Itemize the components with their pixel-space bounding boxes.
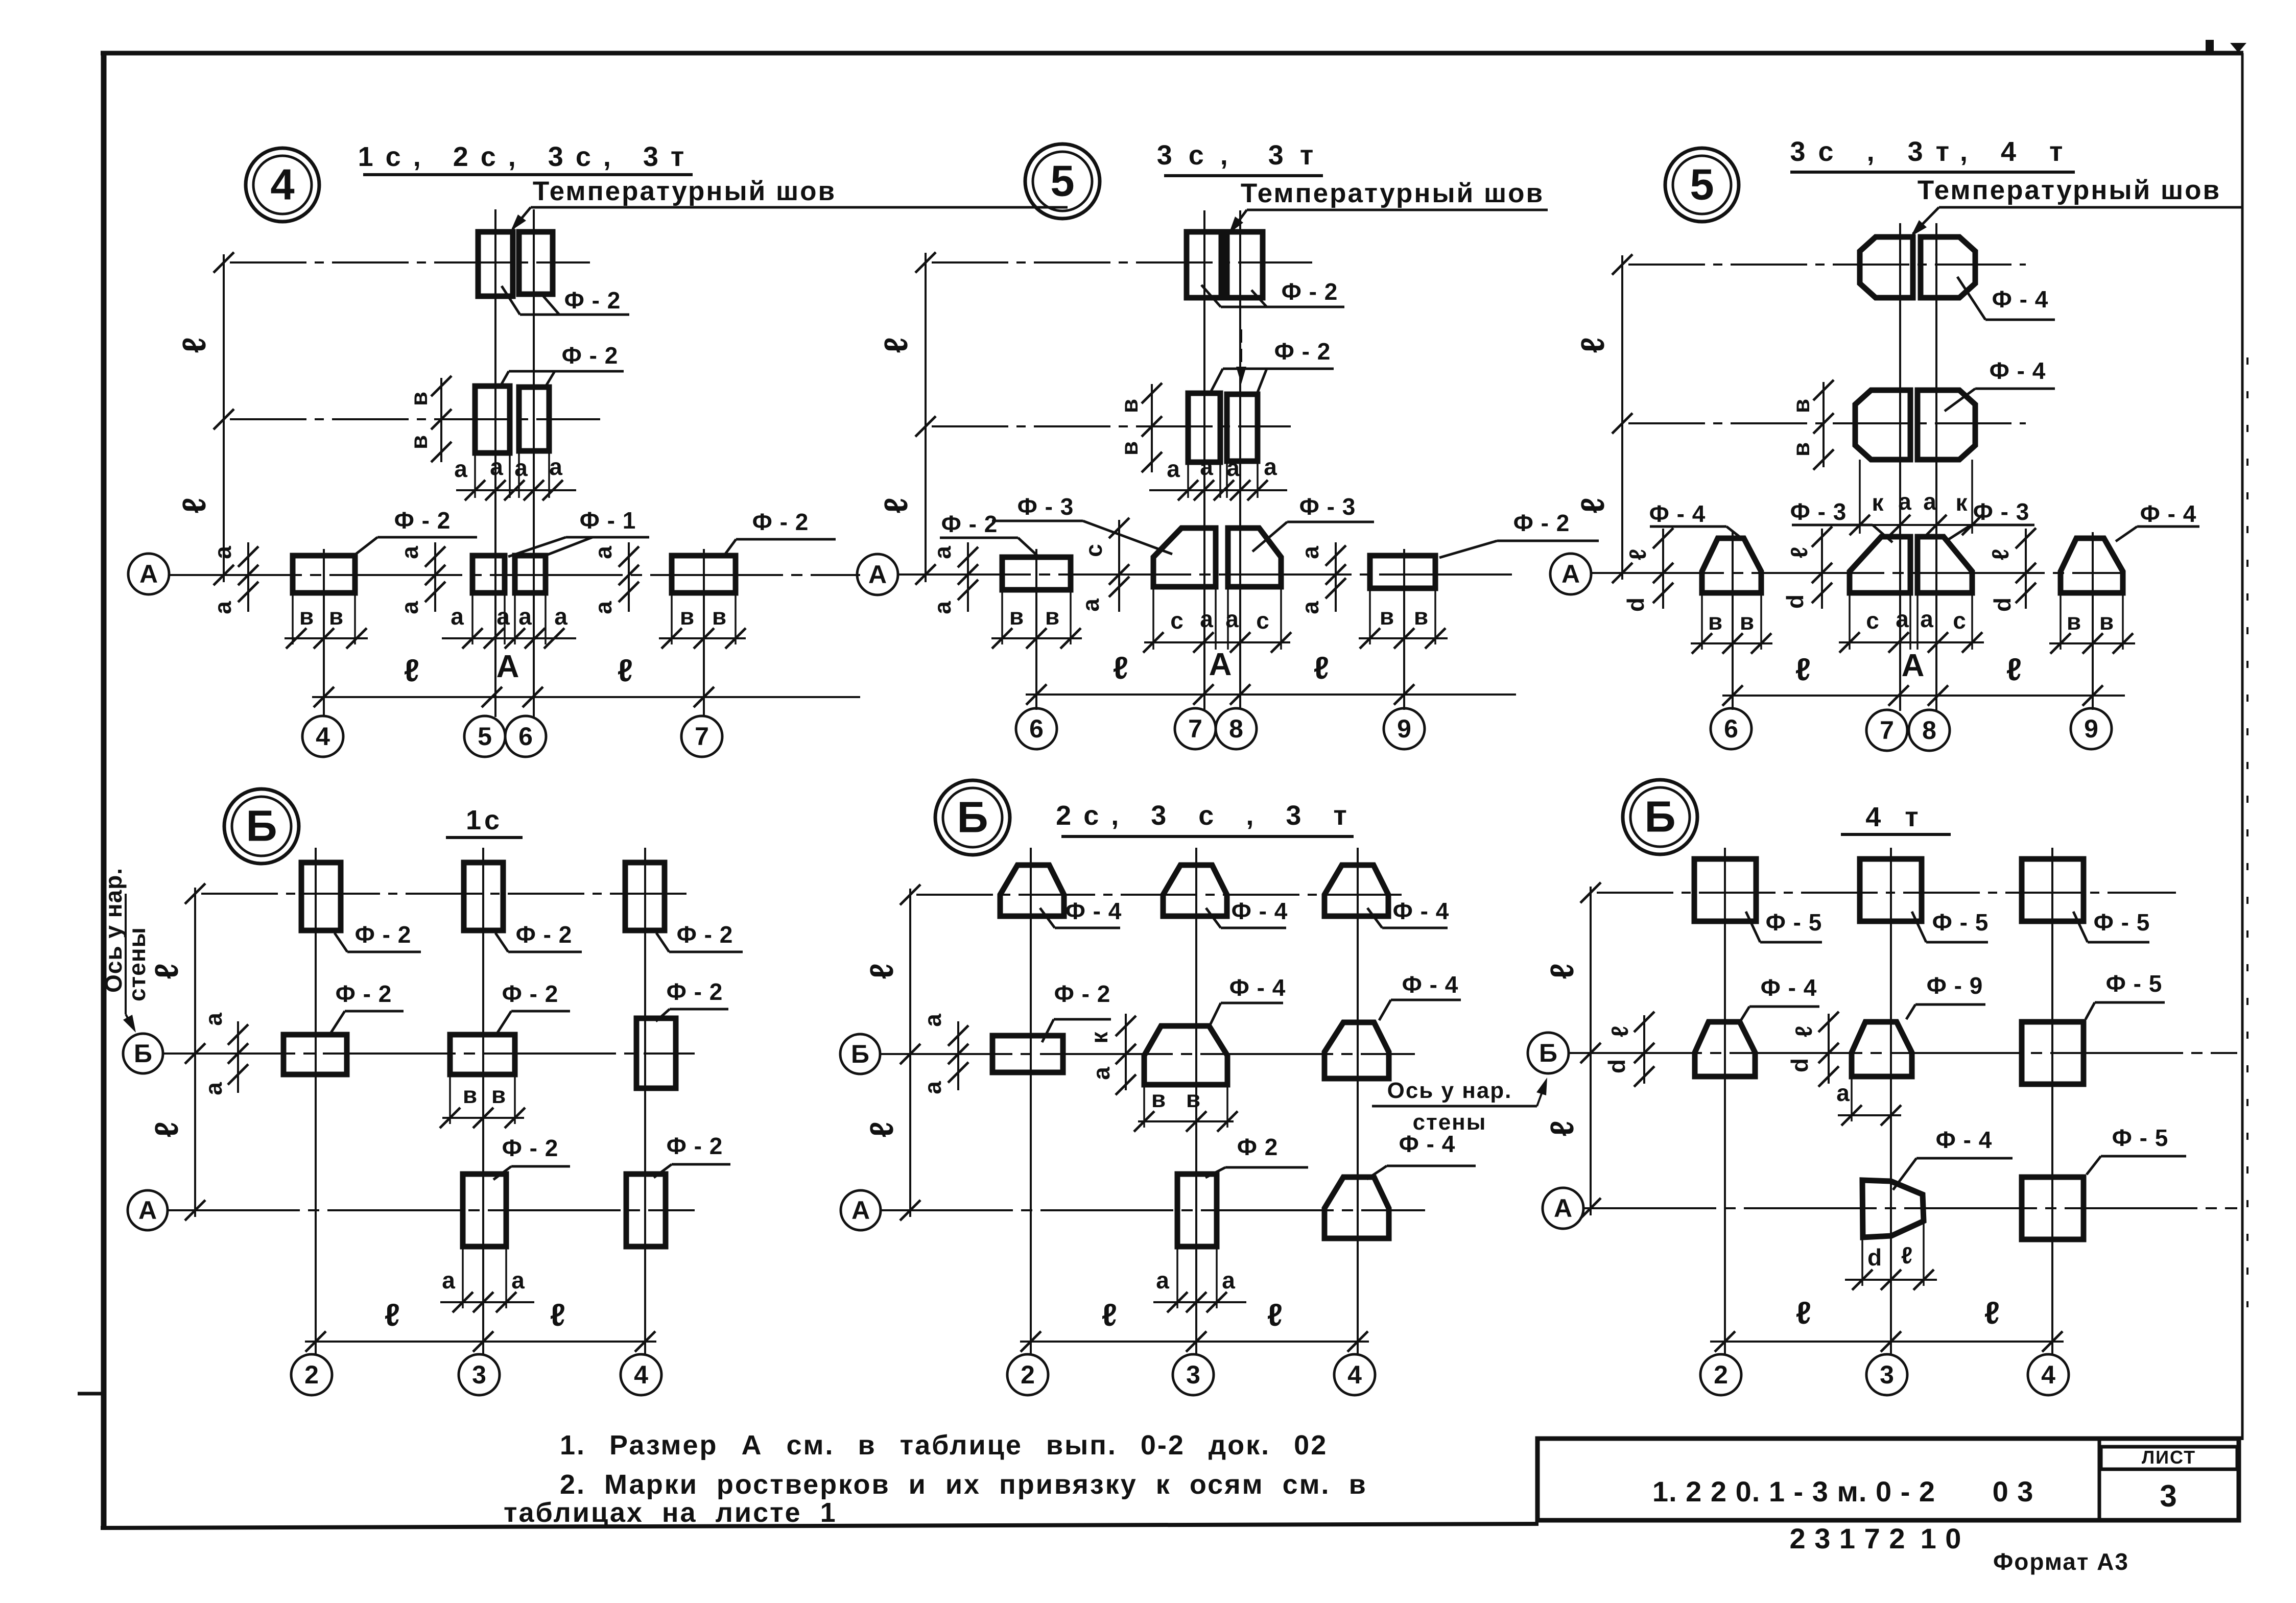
panel4 pile cap F-2 rowA col4 [626, 1174, 666, 1247]
svg-text:ℓ: ℓ [550, 1298, 565, 1333]
panel6 pile cap F-5 rowB col4 [2022, 1022, 2084, 1084]
panel2 c-a dimension rowA pent [1077, 518, 1129, 612]
svg-text:Б: Б [1644, 793, 1675, 842]
panel1 F-1 label rowA center [508, 507, 649, 557]
svg-text:Формат А3: Формат А3 [1993, 1548, 2129, 1575]
panel6 wall axis line top row [1580, 882, 2176, 903]
panel5 axis B circle [840, 1034, 880, 1074]
panel3 pile cap F-4 row2 left [1855, 390, 1910, 460]
panel1 grid circle 4 [302, 716, 343, 757]
svg-text:4: 4 [316, 722, 330, 751]
svg-text:ℓ: ℓ [1574, 337, 1611, 353]
svg-text:Ф - 3: Ф - 3 [1973, 498, 2030, 525]
panel3 k-a-a-k dimension row2 [1847, 460, 1984, 535]
svg-text:1. Размер А см. в таблице: 1. Размер А см. в таблице вып. 0-2 док. … [560, 1430, 1328, 1461]
svg-text:Ф - 2: Ф - 2 [562, 342, 619, 369]
svg-text:Ф - 2: Ф - 2 [336, 980, 392, 1007]
panel1 v-v dimension rowA right [659, 595, 746, 649]
svg-text:а: а [929, 601, 956, 614]
svg-text:Ф - 4: Ф - 4 [1232, 898, 1288, 924]
panel6 e-d dimension rowB col3 [1786, 1012, 1839, 1087]
svg-text:ℓ: ℓ [1574, 497, 1611, 513]
panel5 F-4 label rowB col4 [1379, 971, 1461, 1020]
panel4 a-a dimension rowB col2 [200, 1013, 248, 1095]
svg-text:в: в [1116, 399, 1143, 413]
svg-text:Ф - 3: Ф - 3 [1017, 493, 1074, 520]
panel6 pile cap F-5 rowA col4 [2022, 1177, 2084, 1239]
panel3 grid circle 7 [1866, 710, 1907, 751]
svg-text:3: 3 [2160, 1479, 2177, 1513]
panel3 pile cap F-4 rowA far-left [1702, 538, 1761, 593]
view detail circle B (panel 5) [935, 780, 1010, 855]
svg-text:Ф - 2: Ф - 2 [1282, 278, 1338, 305]
svg-text:Температурный шов: Температурный шов [1241, 178, 1544, 208]
svg-text:а: а [396, 601, 423, 614]
svg-text:5: 5 [478, 722, 492, 751]
svg-text:а: а [919, 1014, 946, 1027]
svg-text:ℓ: ℓ [878, 337, 914, 353]
panel2 span dimension l-A-l [1026, 647, 1516, 705]
panel6 span dimension l-l [1710, 1296, 2064, 1352]
panel6 pile cap F-9 rowB col3 [1852, 1022, 1912, 1076]
panel6 pile cap F-4 rowB col2 [1695, 1022, 1755, 1076]
panel3 row2 center line [1612, 413, 2026, 434]
panel2 grid circle 8 [1216, 708, 1257, 749]
svg-text:а: а [1836, 1080, 1850, 1106]
panel3 span dimension l-A-l [1722, 648, 2125, 706]
panel6 pile cap F-4 rowA col3 [1862, 1180, 1924, 1237]
panel5 wall axis line top row [900, 884, 1405, 905]
panel5 F-4 label rowA col4 [1367, 1131, 1476, 1179]
svg-text:в: в [406, 435, 432, 449]
panel2 v-v dimension row2 [1116, 383, 1162, 472]
svg-text:9: 9 [1397, 714, 1411, 743]
panel1 F-2 label row1 [502, 286, 629, 315]
svg-text:Б: Б [851, 1040, 869, 1068]
panel6 F-5 label rowA col4 [2087, 1125, 2186, 1175]
panel3 row1 center line [1612, 254, 2026, 275]
svg-text:А: А [1561, 560, 1580, 588]
svg-text:а: а [1222, 1267, 1235, 1294]
svg-text:Ф - 9: Ф - 9 [1927, 972, 1983, 999]
svg-text:А: А [139, 560, 158, 588]
svg-text:а: а [511, 1267, 525, 1294]
panel6 pile cap F-5 top col4 [2022, 859, 2084, 921]
panel4 pile cap F-2 top col3 [464, 863, 503, 930]
svg-text:ℓ: ℓ [1795, 652, 1811, 687]
svg-text:d: d [1989, 597, 2016, 612]
svg-text:4: 4 [634, 1360, 648, 1389]
panel1 a-a-a-a dimension row2 [454, 453, 576, 500]
svg-text:Ф - 4: Ф - 4 [1990, 357, 2046, 384]
svg-text:ℓ: ℓ [176, 497, 212, 513]
svg-text:ℓ: ℓ [1786, 547, 1812, 558]
panel4 F-2 label rowB col3 [498, 980, 570, 1033]
svg-text:а: а [396, 546, 423, 559]
panel4 grid circle 3 [459, 1354, 500, 1395]
panel2 label Temperaturny shov [1241, 178, 1548, 210]
svg-text:ℓ: ℓ [878, 497, 914, 513]
svg-text:4: 4 [270, 161, 294, 209]
svg-text:в: в [712, 603, 726, 630]
right margin smudge dashes [2246, 357, 2248, 1307]
panel3 pile cap F-3 rowA center-right [1918, 537, 1972, 593]
svg-text:Б: Б [957, 794, 988, 842]
panel2 row2 center line [915, 416, 1291, 437]
panel4 F-2 label rowB col4 [656, 978, 728, 1021]
svg-text:ℓ: ℓ [1796, 1296, 1811, 1331]
panel4 span dimension l-l [305, 1298, 656, 1352]
svg-text:Ф - 5: Ф - 5 [2094, 909, 2150, 936]
panel1 label Temperaturny shov [531, 176, 1068, 207]
panel6 pile cap F-5 top col3 [1860, 859, 1922, 921]
panel3 d-e dimension rowA pent [1782, 527, 1832, 609]
panel4 F-2 label rowB col2 [331, 980, 404, 1033]
svg-text:Ф - 4: Ф - 4 [1992, 286, 2049, 313]
panel5 pile cap F-4 rowA col4 [1324, 1177, 1389, 1238]
svg-text:Ф - 2: Ф - 2 [502, 1135, 559, 1161]
panel5 F-4 label top col4 [1367, 898, 1449, 928]
svg-text:ℓ: ℓ [1987, 549, 2014, 560]
panel3 e-dimension line left [1574, 255, 1622, 580]
panel6 grid circle 4 [2028, 1354, 2069, 1395]
panel1 grid circle 6 [505, 716, 546, 757]
panel4 F-2 label rowA col3 [493, 1135, 570, 1180]
svg-text:в: в [406, 392, 432, 406]
panel1 pile cap F-2 rowA far-right [672, 556, 736, 593]
panel5 pile cap F-4 top col4 [1324, 865, 1388, 916]
panel2 e-dimension line left [878, 253, 926, 582]
svg-text:к: к [1955, 489, 1968, 516]
panel3 column axis 7 line [1899, 223, 1901, 711]
svg-text:в: в [299, 603, 314, 630]
panel3 F-4 label rowA left [1649, 500, 1743, 539]
panel5 a-a dimension rowB col2 [919, 1014, 968, 1094]
svg-text:6: 6 [1029, 714, 1044, 743]
sheet border frame bottom left segment [101, 1524, 1538, 1528]
panel3 column axis 6 line [1732, 532, 1734, 710]
svg-text:в: в [1708, 608, 1722, 635]
panel2 pile cap F-2 row1 left [1187, 232, 1221, 298]
panel5 pile cap F-2 rowA col3 [1177, 1174, 1217, 1247]
panel1 pile cap F-2 rowA far-left [293, 556, 355, 593]
svg-text:А: А [1902, 648, 1925, 683]
panel3 F-3 label rowA right [1947, 498, 2034, 540]
panel2 pile cap F-2 rowA far-left [1002, 557, 1071, 590]
svg-text:Ф - 2: Ф - 2 [502, 980, 559, 1007]
panel2 F-2 label row1 [1201, 278, 1344, 307]
panel2 row1 center line [915, 252, 1312, 273]
svg-text:2: 2 [304, 1360, 319, 1389]
panel4 a-a dimension rowA col3 [440, 1249, 534, 1312]
panel2 v-v dimension rowA left [991, 592, 1082, 649]
svg-text:с: с [1866, 607, 1879, 634]
panel1 span dimension l-A-l [312, 649, 860, 707]
svg-text:Ось у нар.: Ось у нар. [100, 868, 127, 993]
svg-text:а: а [451, 603, 464, 630]
svg-text:Температурный шов: Температурный шов [533, 176, 836, 206]
svg-text:а: а [1297, 601, 1323, 614]
view detail circle B (panel 6) [1623, 780, 1697, 854]
svg-text:Температурный шов: Температурный шов [1918, 175, 2221, 205]
panel1 a-a-a-a dimension rowA center [442, 595, 576, 649]
svg-text:а: а [1167, 456, 1180, 482]
panel5 F-4 label top col2 [1040, 898, 1122, 928]
svg-text:ℓ: ℓ [2006, 652, 2022, 687]
panel1 grid circle 7 [681, 716, 722, 757]
svg-text:Ф - 4: Ф - 4 [1936, 1127, 1993, 1153]
svg-text:к: к [1086, 1032, 1113, 1044]
panel2 v-v dimension rowA right [1359, 590, 1448, 649]
svg-text:в: в [1151, 1086, 1166, 1112]
svg-text:а: а [454, 456, 467, 482]
panel5 column axis 3 line [1195, 848, 1197, 1354]
svg-text:а: а [1077, 599, 1104, 612]
svg-text:с: с [1170, 607, 1183, 634]
svg-text:Ф - 4: Ф - 4 [1229, 974, 1286, 1001]
svg-text:d: d [1603, 1059, 1630, 1073]
svg-text:Ф - 1: Ф - 1 [580, 507, 636, 534]
svg-text:таблицах на листе 1: таблицах на листе 1 [504, 1497, 837, 1528]
panel1 pile cap F-2 row2 left [475, 386, 510, 453]
panel5 grid circle 4 [1334, 1354, 1375, 1395]
svg-text:ℓ: ℓ [148, 1121, 185, 1137]
sheet border frame right [2241, 53, 2244, 1440]
svg-text:Ф - 2: Ф - 2 [394, 507, 451, 534]
svg-text:стены: стены [1413, 1110, 1487, 1135]
panel3 column axis 8 line [1935, 223, 1937, 711]
panel1 pile cap F-2 row2 right [519, 387, 549, 451]
panel1 v-v dimension rowA left [285, 595, 368, 649]
panel4 column axis 2 line [315, 848, 317, 1354]
panel1 e-dimension line left [176, 254, 224, 582]
svg-text:в: в [2099, 608, 2114, 635]
svg-text:а: а [209, 546, 236, 559]
svg-text:1с: 1с [466, 805, 503, 835]
svg-text:Ф - 2: Ф - 2 [516, 921, 573, 948]
panel6 e-e dimension line left [1544, 887, 1591, 1215]
svg-text:7: 7 [1188, 714, 1202, 743]
panel6 column axis 4 line [2051, 848, 2053, 1354]
svg-text:6: 6 [1724, 714, 1738, 743]
svg-text:а: а [1264, 453, 1277, 480]
panel4 pile cap F-2 rowB col3 [450, 1035, 515, 1074]
svg-text:Ф - 2: Ф - 2 [667, 978, 723, 1005]
panel2 a-a dimension rowA left [929, 542, 978, 614]
svg-text:а: а [590, 546, 617, 559]
svg-text:Ф - 4: Ф - 4 [1066, 898, 1122, 924]
panel1 F-2 label rowA right [723, 509, 836, 557]
svg-text:Ф - 4: Ф - 4 [1761, 974, 1817, 1001]
panel4 v-v dimension rowB col3 [440, 1076, 525, 1128]
svg-text:а: а [919, 1081, 946, 1094]
svg-text:а: а [1226, 454, 1240, 481]
panel2 column axis 7 line [1203, 210, 1205, 710]
svg-text:А: А [138, 1196, 157, 1225]
svg-text:ℓ: ℓ [1113, 651, 1128, 686]
panel5 a-a dimension rowA col3 [1153, 1249, 1246, 1312]
svg-text:а: а [1297, 546, 1323, 559]
panel2 pile cap F-3 rowA center-left [1153, 528, 1216, 587]
svg-text:Ф 2: Ф 2 [1237, 1134, 1279, 1160]
svg-text:Ф - 5: Ф - 5 [1932, 909, 1989, 936]
svg-text:Б: Б [134, 1039, 152, 1068]
svg-text:ℓ: ℓ [1544, 1120, 1580, 1136]
svg-text:Ось у нар.: Ось у нар. [1387, 1078, 1512, 1103]
panel4 axis A circle [128, 1190, 168, 1230]
svg-text:5: 5 [1050, 157, 1074, 206]
svg-text:ℓ: ℓ [176, 337, 212, 353]
svg-text:а: а [200, 1013, 227, 1026]
panel5 F-2 label rowA col3 [1205, 1134, 1308, 1178]
svg-text:а: а [496, 603, 510, 630]
panel3 column axis 9 line [2092, 532, 2094, 710]
svg-text:а: а [590, 601, 617, 614]
panel3 e-d dimension rowA right [1987, 528, 2036, 612]
svg-text:d: d [1622, 597, 1649, 612]
panel2 F-2 label rowA left [940, 511, 1038, 556]
svg-text:в: в [1186, 1086, 1200, 1112]
panel2 F-3 label rowA right [1252, 493, 1374, 552]
panel1 grid circle 5 [464, 716, 505, 757]
panel3 F-3 label rowA left [1790, 498, 1892, 542]
panel1 a-a dimension rowA right [590, 542, 639, 614]
panel5 pile cap F-4 top col2 [1000, 865, 1064, 916]
svg-text:Ф - 4: Ф - 4 [1402, 971, 1459, 998]
panel3 F-4 label rowA right [2116, 500, 2199, 541]
panel4 pile cap F-2 top col4 [625, 863, 665, 930]
svg-text:а: а [1088, 1067, 1115, 1080]
panel4 pile cap F-2 rowB col2 [283, 1035, 347, 1074]
panel1 pile cap F-1 rowA center-right [515, 556, 546, 593]
svg-text:5: 5 [1690, 161, 1714, 209]
panel2 a-a-a-a dimension row2 [1149, 453, 1287, 500]
panel4 axis A line [167, 1200, 695, 1221]
panel1 a-a dimension rowA left [209, 542, 258, 614]
panel1 leader arrow to seam [511, 207, 531, 231]
svg-text:а: а [1156, 1267, 1169, 1294]
panel2 column axis 9 line [1403, 549, 1405, 710]
panel6 column axis 2 line [1724, 848, 1726, 1354]
svg-text:4 т: 4 т [1865, 802, 1926, 832]
svg-text:Ф - 4: Ф - 4 [1649, 500, 1706, 527]
panel6 title 4t [1841, 802, 1951, 834]
svg-text:8: 8 [1229, 714, 1243, 743]
svg-text:в: в [1009, 603, 1024, 630]
panel2 a-a dimension rowA right [1297, 542, 1346, 614]
panel2 pile cap F-2 row2 right [1227, 394, 1258, 461]
svg-text:Ф - 2: Ф - 2 [752, 509, 809, 535]
panel6 F-4 label rowA col3 [1893, 1127, 2013, 1190]
svg-text:4: 4 [2041, 1360, 2055, 1389]
svg-text:а: а [518, 603, 532, 630]
panel5 pile cap F-4 top col3 [1163, 865, 1227, 916]
panel6 axis B line [1569, 1043, 2237, 1063]
panel4 F-2 label top col3 [495, 921, 582, 952]
svg-text:Ф - 4: Ф - 4 [1393, 898, 1450, 924]
panel5 axis A line [880, 1200, 1425, 1221]
panel3 pile cap F-3 rowA center-left [1850, 537, 1910, 593]
panel3 title 3c,3t,4t [1790, 136, 2076, 172]
panel1 pile cap F-1 rowA center-left [472, 556, 505, 593]
svg-text:ℓ: ℓ [618, 653, 633, 688]
panel2 grid circle 7 [1175, 708, 1216, 749]
panel2 F-2 label row2 [1211, 338, 1334, 392]
panel4 F-2 label top col4 [656, 921, 743, 952]
svg-text:а: а [514, 454, 528, 481]
panel5 grid circle 2 [1007, 1354, 1048, 1395]
svg-text:ℓ: ℓ [1624, 549, 1651, 560]
panel6 F-5 label top col4 [2073, 909, 2150, 942]
svg-text:в: в [1788, 399, 1814, 413]
panel1 pile cap F-2 row1 left [478, 232, 513, 296]
svg-text:в: в [1788, 442, 1814, 457]
svg-text:а: а [209, 601, 236, 614]
svg-text:а: а [200, 1082, 227, 1095]
svg-text:а: а [929, 546, 956, 559]
panel4 pile cap F-2 rowB col4 [636, 1018, 676, 1088]
panel3 grid circle 6 [1711, 708, 1751, 749]
panel6 F-4 label rowB col2 [1740, 974, 1819, 1021]
svg-text:к: к [1872, 489, 1884, 516]
svg-text:2: 2 [1021, 1360, 1035, 1389]
panel4 grid circle 2 [291, 1354, 332, 1395]
panel2 column axis 6 line [1035, 549, 1037, 710]
svg-text:ℓ: ℓ [1544, 963, 1580, 979]
panel5 F-4 label rowB col3 [1210, 974, 1286, 1025]
panel3 v-v dimension row2 [1788, 380, 1834, 470]
svg-text:А: А [851, 1196, 870, 1225]
svg-text:2. Марки ростверков и их: 2. Марки ростверков и их привязку к осям… [560, 1469, 1367, 1500]
panel6 F-9 label rowB col3 [1906, 972, 1985, 1019]
svg-text:1с, 2с, 3с, 3т: 1с, 2с, 3с, 3т [358, 141, 697, 172]
svg-text:3с, 3т: 3с, 3т [1157, 140, 1330, 171]
panel3 pile cap F-4 row2 right [1918, 390, 1975, 460]
svg-text:в: в [1740, 608, 1754, 635]
panel4 axis B line [162, 1043, 695, 1064]
svg-text:с: с [1080, 544, 1107, 557]
panel3 label Temperaturny shov [1918, 175, 2241, 207]
panel6 F-5 label top col3 [1912, 909, 1989, 942]
panel2 F-3 label rowA left [992, 493, 1172, 554]
panel3 pile cap F-4 rowA far-right [2061, 538, 2123, 593]
svg-text:Ф - 5: Ф - 5 [2106, 970, 2163, 997]
panel3 leader arrow to seam [1911, 207, 1939, 236]
svg-text:а: а [1200, 453, 1213, 480]
svg-text:Ф - 2: Ф - 2 [355, 921, 412, 948]
svg-text:Б: Б [246, 802, 277, 851]
panel3 v-v dimension rowA right [2049, 595, 2135, 654]
panel2 axis A circle [857, 554, 898, 595]
panel1 title 1c,2c,3c,3t [358, 141, 697, 175]
svg-text:3: 3 [1880, 1360, 1894, 1389]
svg-text:в: в [491, 1082, 506, 1108]
svg-text:Ф - 5: Ф - 5 [1766, 909, 1822, 936]
panel1 pile cap F-2 row1 right [519, 232, 553, 294]
svg-text:ℓ: ℓ [1267, 1298, 1283, 1333]
panel5 label os u nar steny with leader [1372, 1078, 1547, 1135]
svg-text:в: в [680, 603, 694, 630]
svg-text:2: 2 [1714, 1360, 1728, 1389]
panel2 axis A line [898, 564, 1516, 585]
svg-text:А: А [868, 560, 887, 589]
panel2 grid circle 9 [1384, 708, 1425, 749]
panel2 axis arrow above row2 [1236, 329, 1246, 384]
panel4 grid circle 4 [621, 1354, 661, 1395]
svg-text:Ф - 2: Ф - 2 [1513, 510, 1570, 536]
svg-text:в: в [1414, 603, 1428, 630]
panel1 column axis 4 line [323, 549, 325, 717]
